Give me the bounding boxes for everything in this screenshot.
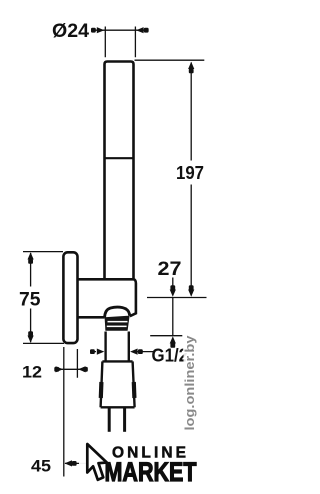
svg-text:197: 197	[176, 163, 204, 183]
svg-text:27: 27	[158, 259, 182, 280]
svg-text:75: 75	[19, 290, 41, 311]
svg-text:log.onliner.by: log.onliner.by	[182, 335, 197, 431]
svg-text:12: 12	[22, 363, 42, 382]
svg-text:45: 45	[31, 457, 51, 476]
svg-text:Ø24: Ø24	[52, 21, 89, 42]
svg-text:MARKET: MARKET	[105, 457, 197, 487]
